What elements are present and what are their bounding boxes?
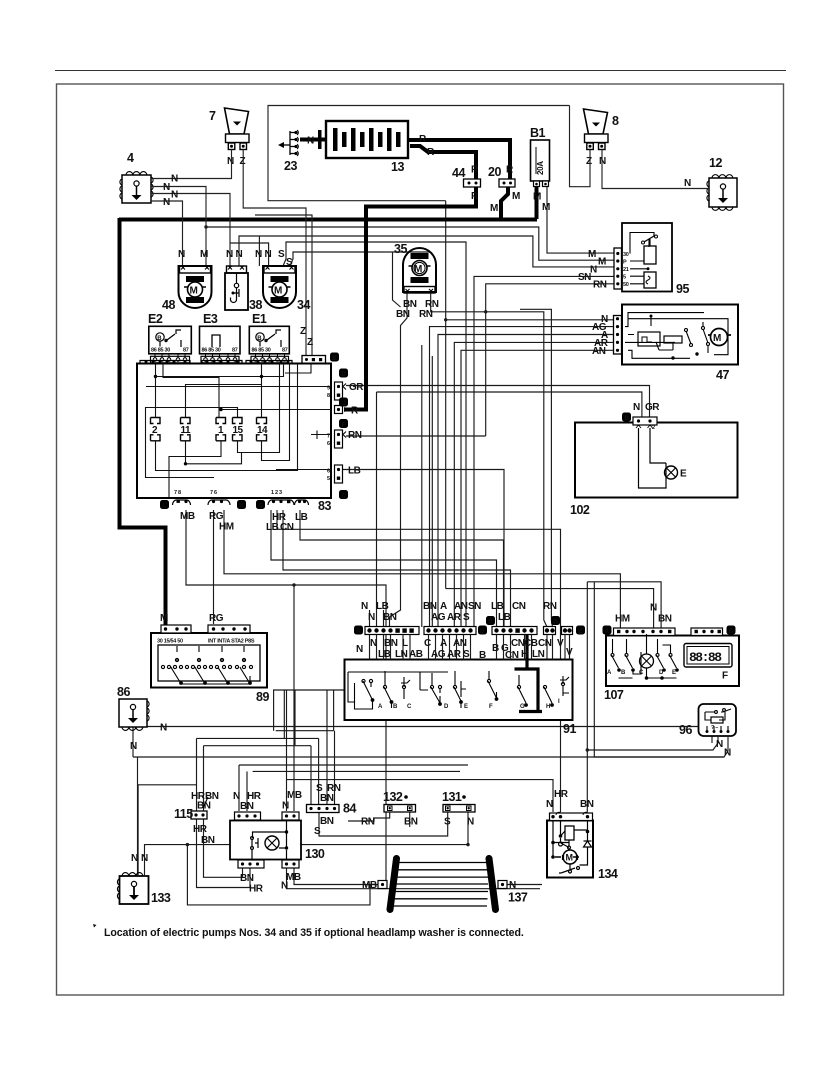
svg-text:LN: LN [532, 649, 545, 660]
svg-text:M: M [566, 853, 574, 863]
svg-text:AB: AB [409, 649, 423, 660]
svg-text:LB: LB [348, 466, 361, 477]
wire N gnd4 row2 to motor 48 M [151, 187, 206, 267]
strip C [492, 627, 537, 635]
wire AR 47 [454, 342, 613, 627]
wire stubs strips into 91 [370, 635, 720, 660]
svg-text:12: 12 [709, 156, 722, 170]
svg-text:95: 95 [676, 282, 689, 296]
svg-text:V: V [557, 638, 564, 649]
fuse 1 [216, 418, 226, 441]
connector D [544, 627, 556, 635]
wire v587 [586, 582, 588, 812]
svg-text:E1: E1 [252, 312, 267, 326]
svg-text:84: 84 [343, 802, 356, 816]
connector RN [335, 430, 343, 448]
svg-text:H: H [546, 704, 550, 710]
svg-text:11: 11 [181, 425, 192, 436]
svg-text:115: 115 [174, 807, 193, 821]
wire 132 RN [348, 811, 390, 821]
svg-text:M: M [414, 264, 422, 275]
svg-text:87: 87 [232, 348, 238, 354]
internal contact rows [177, 646, 244, 662]
svg-text:N: N [265, 249, 272, 260]
switch C [402, 685, 405, 688]
svg-text:133: 133 [151, 891, 171, 905]
digital clock [684, 644, 732, 682]
svg-text:50: 50 [623, 282, 629, 288]
svg-text:RG: RG [209, 511, 224, 522]
svg-text:Z: Z [300, 326, 306, 337]
wire MB fusebox bottom [186, 510, 386, 881]
svg-text:AN: AN [592, 346, 606, 357]
svg-text:9: 9 [327, 386, 330, 392]
svg-text:1 2 3: 1 2 3 [271, 490, 282, 496]
wire N 34 branch [258, 236, 260, 266]
wire 133 N left to 115 [138, 785, 196, 875]
svg-text:S: S [286, 257, 293, 268]
switch A [362, 679, 365, 682]
svg-text:8: 8 [327, 393, 330, 399]
svg-text:N: N [724, 748, 731, 759]
svg-text:N: N [684, 178, 691, 189]
svg-text:N: N [160, 723, 167, 734]
svg-text:M: M [490, 203, 498, 214]
svg-text:38: 38 [249, 298, 262, 312]
wire N horn7 to gnd4 [151, 150, 232, 179]
wire R from battery 13 lower [410, 146, 476, 179]
wire v587 branch to 96 [587, 737, 718, 750]
svg-text:N: N [716, 739, 723, 750]
wire 84 S to 131 S [319, 811, 448, 836]
svg-text:M: M [190, 286, 198, 297]
svg-text:48: 48 [162, 298, 175, 312]
svg-text:83: 83 [318, 499, 331, 513]
wire 132 BN [409, 811, 411, 827]
wire 115 down BN [204, 819, 243, 877]
svg-text:BN: BN [320, 816, 334, 827]
svg-text:S: S [314, 826, 321, 837]
svg-text:M: M [598, 257, 606, 268]
svg-text:5: 5 [623, 275, 626, 281]
strip A [365, 627, 419, 635]
svg-text:N: N [178, 249, 185, 260]
svg-text:87: 87 [282, 348, 288, 354]
wire 130 bottom MB [294, 868, 378, 885]
wire bundle extras [421, 345, 423, 627]
svg-text:6: 6 [327, 441, 330, 447]
svg-text:B: B [479, 650, 486, 661]
svg-text:M: M [512, 191, 520, 202]
svg-text:2: 2 [652, 425, 655, 431]
svg-text:HM: HM [219, 522, 234, 533]
label C [339, 490, 348, 499]
svg-text:SN: SN [578, 272, 591, 283]
svg-text:7: 7 [327, 434, 330, 440]
svg-text:LN: LN [395, 649, 408, 660]
svg-text:86 85 30: 86 85 30 [202, 348, 221, 354]
wire R thick drop to fusebox J [345, 206, 366, 410]
svg-text:47: 47 [716, 368, 729, 382]
svg-text:BN: BN [320, 793, 334, 804]
wire N 86 to 96 [147, 727, 712, 744]
svg-text:RN: RN [348, 430, 362, 441]
svg-text:N: N [650, 603, 657, 614]
svg-text:MB: MB [286, 872, 301, 883]
connector GR [335, 382, 343, 400]
svg-text:RN: RN [361, 817, 375, 828]
svg-text:130: 130 [305, 847, 325, 861]
connector R [335, 406, 343, 414]
strip B [424, 627, 476, 635]
wire AG 47 [430, 327, 614, 627]
switch A [611, 654, 614, 657]
label J [339, 398, 348, 407]
svg-text:N: N [368, 612, 375, 623]
svg-text:R: R [506, 165, 514, 176]
wire v594 to 96 [594, 582, 728, 757]
svg-text:HR: HR [193, 824, 208, 835]
svg-text:S: S [278, 249, 285, 260]
svg-text:N: N [590, 264, 597, 275]
svg-text:GR: GR [645, 402, 660, 413]
svg-text:HR: HR [554, 789, 569, 800]
svg-text:Z: Z [586, 156, 592, 167]
label G [256, 500, 265, 509]
switch I [561, 682, 564, 685]
svg-text:CN: CN [538, 638, 552, 649]
svg-text:86 85 30: 86 85 30 [252, 348, 271, 354]
svg-text:N: N [163, 197, 170, 208]
svg-text:86: 86 [117, 685, 130, 699]
MB connector [378, 881, 387, 889]
wire M from B1 left pin [535, 186, 539, 219]
svg-text:C: C [424, 638, 431, 649]
connector E [562, 627, 573, 635]
svg-text:AN: AN [453, 638, 467, 649]
internal wires of 83 [146, 364, 332, 498]
svg-text:G: G [520, 704, 525, 710]
switch G [517, 685, 520, 688]
svg-text:M: M [542, 202, 550, 213]
wire M B1 to 95 30 [547, 187, 614, 253]
svg-text:E3: E3 [203, 312, 218, 326]
wire S2 34 [290, 252, 430, 266]
wire RN 95 branch [486, 284, 614, 436]
svg-text:E: E [680, 469, 687, 480]
wire N to 102 [377, 392, 642, 417]
svg-text:14: 14 [257, 425, 268, 436]
svg-text:Location of electric pumps Nos: Location of electric pumps Nos. 34 and 3… [104, 927, 524, 939]
svg-text:N: N [171, 174, 178, 185]
svg-text:? –: ? – [711, 725, 718, 731]
svg-text:N: N [307, 136, 314, 147]
svg-text:HR: HR [249, 884, 264, 895]
svg-text:MB: MB [362, 880, 377, 891]
svg-text:N: N [546, 799, 553, 810]
connector G pins [268, 500, 294, 505]
wire RN 35 to strip D [431, 292, 547, 627]
svg-text:E: E [578, 629, 582, 635]
svg-text:7 8: 7 8 [174, 490, 181, 496]
svg-text:7 6: 7 6 [210, 490, 217, 496]
wire R from battery 13 upper [408, 140, 510, 179]
svg-text:HM: HM [615, 614, 630, 625]
svg-text:BN: BN [658, 614, 672, 625]
svg-text:87: 87 [183, 348, 189, 354]
wire N gnd4 row4 to motor48 [151, 201, 183, 266]
wire N horn8 to gnd12 [602, 150, 709, 189]
svg-text:BN: BN [240, 873, 254, 884]
thick CB wire inside 91 [515, 635, 543, 712]
internal joining wires [348, 672, 448, 702]
wire RG fusebox to 89 [213, 510, 215, 624]
svg-text:N: N [130, 741, 137, 752]
wire LB2 fusebox to strip C [300, 510, 504, 627]
wire BN 107 [587, 582, 661, 628]
svg-text:CB: CB [524, 638, 538, 649]
svg-text:44: 44 [452, 166, 465, 180]
fuse 15 [233, 418, 244, 441]
svg-text:N: N [233, 791, 240, 802]
wire 133 N right to 131 N [145, 845, 469, 875]
svg-text:BN: BN [201, 835, 215, 846]
svg-text:30 15/54 50: 30 15/54 50 [157, 639, 183, 645]
wire h779 134 N [286, 690, 288, 811]
svg-text:A: A [440, 638, 447, 649]
switch B [383, 685, 386, 688]
wire N to 107 [446, 589, 654, 628]
wire M bus [119, 218, 537, 222]
wire SN strip B to 95 [474, 276, 614, 627]
svg-text:LB: LB [498, 612, 511, 623]
svg-text:M: M [533, 192, 541, 203]
wire 130 bottom N [287, 868, 541, 889]
connector LB [335, 465, 343, 483]
switch D [430, 685, 433, 688]
svg-text:BN: BN [423, 601, 437, 612]
svg-text:134: 134 [598, 867, 618, 881]
svg-text:91: 91 [563, 722, 576, 736]
svg-text:137: 137 [508, 891, 528, 905]
lamp C [640, 654, 654, 668]
svg-text:BN: BN [383, 612, 397, 623]
svg-text:Z: Z [307, 337, 313, 348]
svg-text:131: 131 [442, 790, 462, 804]
svg-text:N: N [282, 801, 289, 812]
wire 137 N up [507, 884, 542, 886]
wire N via 392 [393, 252, 401, 307]
svg-text:AR: AR [447, 612, 462, 623]
svg-text:RN: RN [593, 280, 607, 291]
wire loop to 47 N and 102 N [445, 201, 447, 589]
wire N 86 bottom to 133 [132, 723, 134, 757]
svg-text:N: N [131, 853, 138, 864]
svg-text:INT INT/A STA2 P8S: INT INT/A STA2 P8S [208, 639, 255, 645]
svg-text:M: M [588, 249, 596, 260]
wire h765 130 N 131 N [239, 764, 468, 766]
wire h771 130 HR [253, 770, 460, 772]
svg-text:N: N [141, 853, 148, 864]
svg-text:21: 21 [623, 267, 629, 273]
wire N 34 second [230, 243, 269, 266]
svg-text:M: M [200, 249, 208, 260]
wire h730 [276, 730, 334, 732]
border frame [57, 84, 784, 995]
wire S 34 to strip B [283, 242, 466, 627]
svg-text:B1: B1 [530, 126, 546, 140]
label H [237, 500, 246, 509]
fuse 2 [151, 418, 161, 441]
svg-text:F: F [722, 671, 728, 682]
wire 89 region verticals [274, 690, 345, 731]
svg-text:30: 30 [623, 252, 629, 258]
switch E [453, 685, 456, 688]
svg-text:AN: AN [454, 601, 468, 612]
wire AN 47 [461, 350, 614, 627]
svg-text:M: M [713, 333, 721, 344]
svg-text:H: H [239, 504, 243, 510]
svg-text:BN: BN [396, 309, 410, 320]
connector MB [173, 500, 191, 505]
svg-text:BN: BN [240, 801, 254, 812]
svg-text:E2: E2 [148, 312, 163, 326]
wire N gnd4 row3 to pump38 [151, 194, 230, 267]
switch H thick [543, 685, 546, 688]
svg-text:GR: GR [349, 382, 364, 393]
svg-text:S: S [444, 817, 451, 828]
wire M 48 to 95 P [206, 227, 614, 260]
svg-text:LB: LB [378, 649, 391, 660]
svg-text:88:88: 88:88 [689, 650, 722, 665]
svg-text:S: S [463, 612, 470, 623]
svg-text:N: N [255, 249, 262, 260]
wire HR fusebox to 134 [277, 510, 561, 812]
wire LB fusebox right to strip C [343, 470, 504, 628]
svg-text:4: 4 [127, 151, 134, 165]
svg-text:N: N [281, 881, 288, 892]
svg-text:N: N [236, 249, 243, 260]
switch F [487, 679, 490, 682]
wire Z horn7 down [243, 150, 306, 356]
svg-text:7: 7 [209, 109, 216, 123]
svg-text:N: N [356, 644, 363, 655]
connector LB2 [295, 500, 309, 505]
svg-text:CN: CN [505, 650, 519, 661]
wire RN fusebox to RN net [346, 435, 486, 437]
svg-text:86 85 30: 86 85 30 [151, 348, 170, 354]
wire HM fusebox to 107 [224, 510, 620, 630]
svg-text:LB: LB [295, 512, 308, 523]
svg-text:N: N [226, 249, 233, 260]
fuse 14 [257, 418, 269, 441]
svg-text:CN: CN [512, 601, 526, 612]
svg-text:5: 5 [327, 476, 330, 482]
svg-text:102: 102 [570, 503, 590, 517]
svg-text:15: 15 [233, 425, 244, 436]
wire CN to strip D [520, 309, 553, 627]
label F [339, 419, 348, 428]
svg-text:6: 6 [327, 469, 330, 475]
wire h745 84 BN [204, 745, 312, 747]
svg-text:107: 107 [604, 688, 624, 702]
label L [160, 500, 169, 509]
wire MB branch 130 [293, 585, 295, 811]
wire LB fusebox to strip C [271, 510, 497, 627]
wire M left drop to 89 [120, 218, 166, 629]
wire Z horn8 down [570, 106, 591, 187]
svg-text:MB: MB [287, 790, 302, 801]
svg-text:LB: LB [376, 601, 389, 612]
svg-text:96: 96 [679, 723, 692, 737]
svg-text:LB: LB [266, 522, 279, 533]
wire R 44 to bus [366, 187, 476, 219]
svg-text:34: 34 [297, 298, 310, 312]
svg-text:SN: SN [468, 601, 481, 612]
wire N 38 to 95 21 [239, 236, 614, 267]
svg-text:RN: RN [419, 309, 433, 320]
N connector [498, 881, 507, 889]
svg-text:N: N [163, 182, 170, 193]
left bar [390, 859, 397, 910]
svg-text:N: N [361, 601, 368, 612]
wire M from 20 [501, 187, 508, 219]
svg-text:BN: BN [580, 799, 594, 810]
switch D [656, 654, 659, 657]
svg-text:8: 8 [612, 114, 619, 128]
switch E [669, 654, 672, 657]
wire 115 down HR [197, 819, 251, 888]
svg-text:M: M [160, 613, 168, 624]
connector RG/HM [208, 500, 230, 505]
svg-text:RN: RN [543, 601, 557, 612]
svg-text:E: E [672, 670, 676, 676]
svg-text:35: 35 [394, 242, 407, 256]
svg-text:Z: Z [240, 156, 246, 167]
right bar [489, 859, 496, 910]
wire N 23 to battery 13 [300, 138, 326, 142]
svg-text:MB: MB [180, 511, 195, 522]
svg-text:89: 89 [256, 690, 269, 704]
wire CN fusebox to strip C [283, 510, 511, 627]
top rule [55, 70, 786, 72]
svg-text:RG: RG [209, 613, 224, 624]
svg-text:AG: AG [431, 612, 446, 623]
svg-text:BN: BN [404, 817, 418, 828]
svg-text:AG: AG [431, 649, 446, 660]
svg-text:20A: 20A [536, 161, 545, 175]
svg-text:N: N [633, 402, 640, 413]
wire N strip A stub [369, 610, 371, 627]
switch B [625, 654, 628, 657]
wire 187 drop [187, 845, 378, 905]
svg-text:132: 132 [383, 790, 403, 804]
svg-text:CN: CN [511, 638, 525, 649]
svg-text:N: N [227, 156, 234, 167]
wire A 47 [438, 335, 614, 628]
svg-text:N: N [467, 817, 474, 828]
fuse 11 [181, 418, 192, 441]
wire loop top [268, 106, 570, 201]
svg-text:20: 20 [488, 165, 501, 179]
svg-text:13: 13 [391, 160, 404, 174]
svg-text:LB: LB [491, 601, 504, 612]
svg-text:E: E [464, 704, 468, 710]
svg-text:N: N [171, 190, 178, 201]
svg-text:M: M [274, 286, 282, 297]
wire Z second [255, 215, 312, 355]
wire h738 84 S [197, 737, 319, 739]
